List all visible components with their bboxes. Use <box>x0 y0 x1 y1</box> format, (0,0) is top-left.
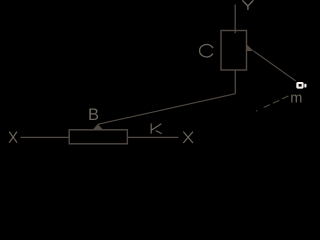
label Y <box>242 0 253 10</box>
mass m icon <box>296 82 306 89</box>
dashed guide line <box>256 95 290 111</box>
slider B body <box>69 130 127 144</box>
svg-text:m: m <box>290 90 302 106</box>
pivot triangle on C <box>247 44 254 51</box>
link C to mass m <box>254 51 296 81</box>
svg-text:B: B <box>88 106 99 124</box>
Y axis line <box>234 5 236 34</box>
cylinder C body <box>221 31 247 71</box>
pivot triangle on B <box>92 124 103 130</box>
connecting rod B to C <box>98 94 236 125</box>
label X left <box>9 132 17 143</box>
label K <box>151 124 162 134</box>
label C <box>200 44 213 57</box>
X axis line right <box>127 136 178 138</box>
X axis line left <box>21 136 70 138</box>
label X right <box>183 132 193 143</box>
piston rod below C <box>234 70 236 94</box>
